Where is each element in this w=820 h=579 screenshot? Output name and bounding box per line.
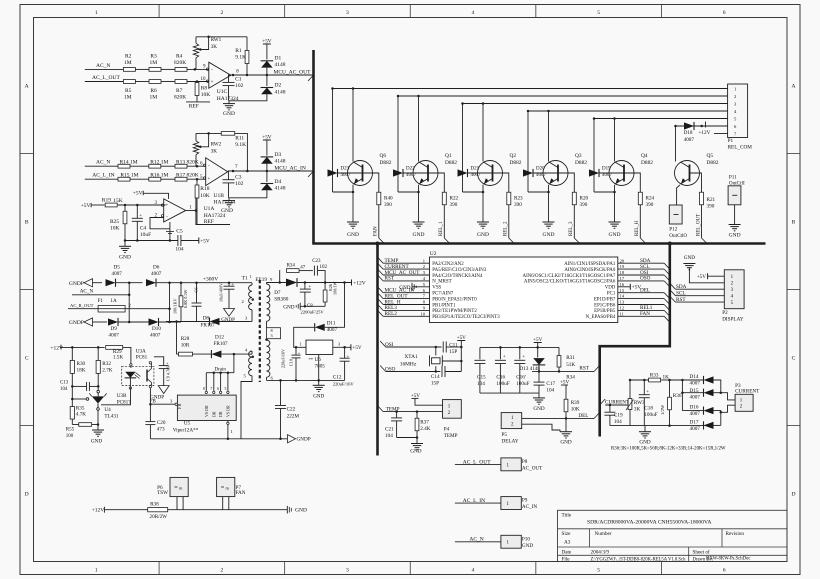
svg-text:File: File — [562, 556, 571, 562]
svg-text:R25: R25 — [110, 219, 119, 225]
svg-text:DEL: DEL — [578, 413, 588, 419]
svg-text:FAN: FAN — [236, 490, 246, 496]
diode D19 4007 — [589, 169, 599, 176]
svg-text:C13: C13 — [60, 380, 69, 385]
svg-text:PA2/CIN2/AN2: PA2/CIN2/AN2 — [432, 262, 464, 267]
svg-text:D18: D18 — [684, 130, 693, 136]
wire R28 to D12 — [193, 353, 212, 355]
net label CURRENT to U2 pin 2 — [378, 263, 384, 269]
svg-text:C22: C22 — [287, 406, 296, 412]
svg-text:A: A — [25, 84, 29, 90]
resistor R23 390 — [507, 192, 511, 205]
svg-text:4.7K: 4.7K — [76, 412, 86, 418]
power +5V to P2 pin 1 — [707, 273, 709, 279]
svg-text:Q4: Q4 — [641, 153, 648, 159]
resistor R8 — [196, 81, 198, 84]
svg-text:P5: P5 — [502, 432, 508, 438]
svg-text:10R: 10R — [181, 342, 190, 348]
svg-text:R38: R38 — [150, 502, 159, 508]
svg-text:D3: D3 — [275, 152, 282, 158]
bus drop x=669.8 with jog to x=599.7 — [600, 245, 670, 437]
svg-text:DISPLAY: DISPLAY — [722, 316, 744, 322]
wire T1 pin6 bottom rail — [267, 379, 345, 381]
diode D1 4148 — [261, 61, 273, 68]
svg-text:1M: 1M — [124, 94, 132, 100]
svg-text:D882: D882 — [380, 160, 392, 166]
resistor R30 18K — [71, 347, 73, 360]
svg-text:DXW-8KW-Ps.SchDoc: DXW-8KW-Ps.SchDoc — [706, 557, 750, 562]
wire secondary pin6 bottom — [266, 377, 268, 380]
svg-text:C3: C3 — [235, 175, 242, 181]
wire U3B emitter to TL431 — [101, 388, 131, 405]
wire R39 to GND — [565, 418, 567, 431]
wire base Q4 — [599, 172, 624, 174]
wire P1 pin7 stub — [714, 133, 728, 135]
svg-text:16: 16 — [620, 282, 625, 287]
svg-text:Q6: Q6 — [380, 153, 387, 159]
resistor R29 1.5K — [106, 346, 123, 350]
svg-text:104: 104 — [175, 246, 184, 252]
capacitor C4 10uF electrolytic — [136, 205, 138, 218]
svg-text:m: m — [226, 485, 230, 490]
svg-text:+: + — [347, 353, 350, 358]
wire AC_N row 2 — [85, 165, 118, 167]
svg-text:100uF: 100uF — [516, 381, 529, 387]
wire base Q3 — [533, 172, 558, 174]
diode D22 4007 — [393, 169, 403, 176]
transistor Q6 D882 — [348, 161, 373, 186]
wire U1A output — [186, 210, 196, 212]
wire emitter junction rail — [398, 191, 419, 193]
svg-text:10K: 10K — [110, 226, 120, 232]
svg-text:SR380: SR380 — [274, 297, 289, 303]
svg-text:8: 8 — [203, 387, 205, 391]
wire base resistor drop — [624, 173, 640, 192]
wire D8 to T1 pin3 — [220, 321, 250, 323]
wire R19 to pin3 node — [118, 204, 166, 206]
wire D1 to output — [266, 67, 268, 86]
resistor R21 390 — [700, 192, 704, 205]
power +5V stub above D13 — [534, 342, 542, 344]
svg-text:C10: C10 — [288, 359, 293, 366]
svg-text:4007: 4007 — [151, 271, 162, 277]
diode D7 SR380 — [286, 279, 297, 287]
svg-text:D: D — [791, 492, 795, 498]
svg-text:Q1: Q1 — [445, 153, 452, 159]
svg-text:R55: R55 — [66, 428, 75, 433]
op-amp U1A — [164, 199, 186, 222]
svg-text:P9: P9 — [522, 498, 528, 504]
svg-text:473: 473 — [157, 426, 165, 432]
svg-text:C6: C6 — [194, 287, 199, 293]
svg-text:R15 1M: R15 1M — [120, 172, 138, 178]
wire R7 to op-amp pin 10 — [187, 81, 209, 83]
svg-text:+: + — [522, 355, 525, 360]
power +12V secondary output — [351, 280, 353, 286]
wire U5 source bottom — [227, 421, 229, 422]
svg-text:D882: D882 — [707, 160, 719, 166]
svg-text:R20: R20 — [580, 196, 589, 202]
connector P10 GND — [501, 535, 521, 548]
diode D14 4007 — [704, 376, 714, 383]
wire D11 cathode to U6 pin 1 — [294, 327, 315, 347]
wire R1 bottom to output — [246, 64, 248, 76]
svg-text:R30: R30 — [77, 361, 86, 367]
capacitor C9 4.7uF — [154, 357, 164, 366]
svg-text:TSW: TSW — [157, 490, 168, 496]
resistor R15 — [118, 177, 130, 181]
svg-text:6.8K 0.5W: 6.8K 0.5W — [183, 289, 188, 308]
svg-text:PC1: PC1 — [607, 292, 616, 297]
wire base resistor drop — [428, 173, 444, 192]
svg-text:PC7/AIN7: PC7/AIN7 — [432, 292, 453, 297]
svg-text:+5V: +5V — [81, 203, 91, 209]
resistor R17 — [175, 177, 187, 181]
svg-text:GNDP: GNDP — [221, 318, 235, 323]
svg-text:PB0/N_EPAS1/PINT0: PB0/N_EPAS1/PINT0 — [432, 297, 477, 302]
wire D5 to D6 — [116, 282, 143, 284]
wire GND to P2 pin 2 — [689, 268, 724, 283]
svg-text:R16 1M: R16 1M — [150, 172, 168, 178]
svg-text:Revision: Revision — [726, 531, 745, 537]
zone row ticks — [20, 153, 34, 155]
svg-text:R13 820K: R13 820K — [176, 159, 199, 165]
svg-text:DEL: DEL — [640, 288, 650, 294]
diode D9 4007 — [108, 318, 118, 325]
wire R39 bottom DEL rail — [565, 412, 567, 419]
svg-text:4148: 4148 — [275, 89, 286, 95]
svg-text:AC_L_OUT: AC_L_OUT — [92, 75, 120, 81]
svg-text:220uF/16V: 220uF/16V — [281, 349, 286, 368]
resistor R1 9.1K — [245, 51, 249, 64]
svg-text:C9 4.7uF: C9 4.7uF — [166, 365, 171, 381]
svg-text:15K: 15K — [113, 198, 123, 204]
wire P1 pin6 rail with D18 — [676, 125, 728, 127]
wire D9 to D10 — [118, 321, 149, 323]
svg-text:+: + — [211, 80, 214, 85]
svg-text:820K: 820K — [174, 60, 186, 66]
svg-text:10uF/400V: 10uF/400V — [219, 283, 224, 302]
svg-text:7805: 7805 — [315, 364, 326, 370]
resistor R25 — [124, 205, 126, 211]
zone column ticks — [158, 5, 160, 18]
wire D15 left — [682, 392, 703, 394]
svg-text:19: 19 — [620, 264, 625, 269]
resistor R37 2.4K — [416, 412, 418, 419]
wire TL431 anode down — [97, 404, 99, 408]
snubber R34 47 — [279, 271, 282, 283]
wire emitter junction rail — [333, 191, 354, 193]
svg-text:R22: R22 — [450, 196, 459, 202]
wire D16 left — [682, 410, 703, 412]
wire P1 pin2 to Q1 — [398, 95, 728, 97]
svg-text:104: 104 — [477, 381, 485, 387]
title block frame — [558, 510, 788, 561]
svg-text:GND: GND — [313, 394, 324, 400]
svg-text:10: 10 — [421, 311, 426, 316]
wire U2 right pin 11 to bus — [618, 315, 664, 317]
resistor R2 — [123, 68, 135, 72]
wire to P8 — [455, 463, 501, 465]
ground GND sideways at C8 — [299, 303, 301, 310]
svg-text:+12V: +12V — [699, 130, 711, 136]
resistor R24 390 — [638, 192, 642, 205]
connector P7 FAN — [217, 477, 235, 496]
wire emitter of Q1 — [418, 185, 420, 192]
svg-text:RW2: RW2 — [211, 141, 222, 147]
wire op-amp U1B output — [228, 170, 314, 172]
svg-text:F1: F1 — [98, 298, 104, 304]
svg-text:DR: DR — [211, 411, 216, 417]
svg-text:4007: 4007 — [109, 332, 120, 338]
svg-text:C15: C15 — [477, 374, 486, 380]
svg-text:Date: Date — [562, 549, 572, 555]
net label TEMP to U2 pin 1 — [378, 257, 384, 263]
svg-text:5: 5 — [597, 10, 600, 16]
svg-text:11: 11 — [620, 311, 624, 316]
svg-text:A: A — [791, 84, 795, 90]
wire D2 bottom to GND rail — [229, 93, 267, 101]
svg-text:AIN0/CIN0/ISPSCK/PA0: AIN0/CIN0/ISPSCK/PA0 — [564, 268, 615, 273]
svg-text:GND: GND — [347, 232, 359, 238]
net label MCU_AC_IN to U2 pin 6 — [378, 287, 384, 293]
diode D10 4007 — [149, 318, 159, 325]
svg-text:102: 102 — [235, 181, 244, 187]
wire GNDP to D9 — [93, 321, 108, 323]
resistor R7 — [175, 80, 187, 84]
svg-text:AIN5/OSC2/CLKO/T16GGI/T16GOSC2: AIN5/OSC2/CLKO/T16GGI/T16GOSC2/PA6 — [524, 280, 616, 285]
transformer core dashed line — [259, 280, 261, 382]
svg-text:18K: 18K — [77, 367, 86, 373]
svg-text:EE19: EE19 — [255, 277, 267, 283]
wire R29 to opto LED — [123, 347, 131, 363]
svg-text:P10: P10 — [522, 536, 530, 542]
wire Q5 collector — [675, 126, 677, 162]
svg-text:C: C — [792, 356, 796, 362]
svg-text:51K: 51K — [566, 362, 575, 368]
wire U2 right pin 14 to bus — [618, 298, 664, 300]
snubber resistor R27 100/1KV — [180, 283, 182, 296]
svg-text:SDR/ACDR8000VA-20000VA CNH550: SDR/ACDR8000VA-20000VA CNH5500VA-18000VA — [587, 520, 711, 526]
wire U2 right pin 17 to bus — [618, 280, 664, 282]
resistor R4 — [175, 68, 187, 72]
svg-text:R1: R1 — [235, 48, 242, 54]
svg-text:EP1D/PB7: EP1D/PB7 — [594, 297, 616, 302]
svg-text:+5V: +5V — [560, 379, 570, 385]
svg-text:D1: D1 — [275, 55, 282, 61]
resistor R31 51K — [558, 347, 560, 356]
secondary winding upper — [267, 284, 270, 321]
capacitor C11 15P — [442, 342, 444, 353]
svg-text:C5: C5 — [176, 228, 183, 234]
svg-text:D4: D4 — [275, 179, 282, 185]
power flag GNDP bottom rail — [288, 435, 296, 443]
svg-text:R39: R39 — [571, 400, 580, 406]
svg-text:D22: D22 — [406, 167, 415, 172]
svg-text:R3: R3 — [150, 53, 157, 59]
svg-text:D882: D882 — [445, 160, 457, 166]
primary winding lower — [249, 351, 252, 376]
wire Q6 collector vertical — [352, 89, 354, 162]
transistor Q4 D882 — [609, 161, 634, 186]
svg-text:R23: R23 — [514, 196, 523, 202]
svg-text:47: 47 — [300, 266, 306, 271]
wire Q4 collector vertical — [614, 119, 616, 162]
svg-text:Title: Title — [562, 513, 572, 519]
svg-text:AC_N: AC_N — [96, 160, 110, 166]
transistor Q5 D882 — [675, 161, 700, 186]
power flag GNDP down arrow — [224, 309, 235, 317]
svg-text:TEMP: TEMP — [444, 433, 458, 439]
svg-text:D20: D20 — [536, 167, 545, 172]
svg-text:C4: C4 — [140, 226, 147, 232]
capacitor C12 220uF/16V — [344, 347, 346, 358]
svg-text:R5: R5 — [125, 88, 132, 94]
wire D15 right — [713, 392, 721, 394]
wire R17 to U1B pin 5 — [187, 178, 206, 180]
svg-text:R36:3K=100R,5K=56R;8K-12K=33R;: R36:3K=100R,5K=56R;8K-12K=33R;14-20K=15R… — [611, 446, 726, 451]
wiper of RW2 — [199, 133, 209, 146]
capacitor C16 100uF — [499, 347, 501, 359]
wire AC_L_IN row — [85, 178, 118, 180]
wire drain to D12 row — [233, 354, 235, 373]
svg-text:MCU_AC_OUT: MCU_AC_OUT — [274, 69, 312, 75]
svg-text:C23: C23 — [312, 259, 321, 264]
svg-text:C21: C21 — [385, 426, 394, 432]
wire D13 to RST rail — [538, 365, 540, 372]
svg-text:U1C: U1C — [217, 89, 228, 95]
svg-text:R8: R8 — [201, 86, 208, 92]
svg-text:+: + — [503, 355, 506, 360]
resistor R5 — [123, 80, 135, 84]
svg-text:+5V: +5V — [262, 38, 272, 44]
resistor R11 9.1K — [221, 132, 235, 136]
connector P8 AC_OUT — [501, 458, 521, 471]
svg-text:PB2/TE1PWM/PINT2: PB2/TE1PWM/PINT2 — [432, 309, 477, 314]
resistor R18 — [196, 179, 198, 185]
ground GND under C3 — [228, 198, 230, 201]
svg-text:T1: T1 — [242, 275, 248, 281]
svg-text:222M: 222M — [287, 414, 300, 420]
wire base resistor drop — [493, 173, 509, 192]
resistor R13 — [175, 164, 187, 168]
wire R37 bottom to GND — [416, 431, 418, 444]
capacitor C17 104 — [534, 381, 545, 383]
bottom rail GNDP — [150, 438, 287, 440]
bus drop x=377.5 — [376, 242, 379, 455]
diode D6 4007 — [146, 279, 156, 286]
svg-text:4007: 4007 — [471, 173, 482, 178]
svg-text:820K: 820K — [174, 94, 186, 100]
wire base Q6 — [338, 172, 363, 174]
connector P4 TEMP — [443, 400, 462, 419]
wire junction to P3 pin1 — [721, 393, 735, 400]
svg-text:2.7K: 2.7K — [102, 367, 112, 373]
ground GND cap bank — [538, 393, 540, 398]
svg-text:104: 104 — [60, 387, 68, 392]
wire emitter of Q4 — [614, 185, 616, 192]
svg-text:B: B — [25, 220, 29, 226]
svg-text:R24: R24 — [646, 196, 655, 202]
wire U2 right pin 13 to bus — [618, 304, 664, 306]
wire R36 bottom — [669, 410, 671, 426]
svg-text:TL431: TL431 — [104, 413, 119, 419]
svg-text:RST: RST — [579, 366, 589, 372]
svg-text:FR107: FR107 — [201, 322, 216, 328]
svg-text:4007: 4007 — [690, 411, 701, 417]
wire CURRENT row — [605, 404, 630, 406]
svg-text:+12V: +12V — [92, 508, 105, 514]
svg-text:4007: 4007 — [602, 173, 613, 178]
diode D2 4148 — [261, 88, 273, 95]
svg-text:GNDP: GNDP — [69, 281, 84, 287]
ground GND under Q6 — [347, 221, 359, 223]
capacitor C22 222M — [280, 380, 282, 405]
IC U5 Viper12A — [177, 395, 236, 420]
wire D11 anode to +12V rail — [325, 283, 345, 328]
svg-text:PB3/EP1A/TE2CO/TE2CI/PINT3: PB3/EP1A/TE2CO/TE2CI/PINT3 — [432, 315, 500, 320]
wire RST to bus entry — [562, 370, 594, 372]
svg-text:GND: GND — [684, 255, 695, 261]
power +5V crystal — [457, 340, 465, 342]
svg-text:Q5: Q5 — [707, 153, 714, 159]
diode D13 4148 — [533, 358, 545, 365]
svg-text:REL_COM: REL_COM — [728, 145, 753, 151]
wire Q3 collector vertical — [548, 111, 550, 162]
svg-text:EP1C/PB6: EP1C/PB6 — [594, 303, 616, 308]
bottom rail CURRENT block — [610, 425, 705, 427]
wire secondary pin9 top — [266, 283, 268, 285]
svg-text:REL_2: REL_2 — [504, 221, 509, 236]
svg-text:4007: 4007 — [684, 137, 695, 143]
wire R5-R6 — [135, 81, 149, 83]
svg-text:GND: GND — [283, 305, 294, 311]
wire +5V to R19 — [91, 204, 105, 206]
capacitor C21 104 — [396, 412, 398, 418]
wire R11 to output — [235, 133, 248, 171]
svg-text:C1: C1 — [235, 76, 242, 82]
bus horizontal y=243.5 — [312, 242, 765, 245]
capacitor C19 104 — [609, 405, 611, 412]
svg-text:4007: 4007 — [327, 327, 338, 333]
svg-text:Drain: Drain — [215, 368, 227, 373]
wire RW2 top rail — [196, 132, 221, 134]
opto coupling arrows — [135, 375, 140, 379]
svg-text:+5V: +5V — [262, 134, 272, 140]
svg-text:AC_OUT: AC_OUT — [522, 466, 543, 472]
wire D16 right vertical — [713, 411, 721, 426]
svg-text:104: 104 — [614, 419, 622, 425]
svg-text:390: 390 — [707, 204, 715, 210]
svg-text:PC81: PC81 — [136, 354, 148, 360]
connector P12 — [669, 205, 682, 224]
capacitor C8 2200uF/25V — [304, 283, 306, 290]
wire REL_H to bus entry — [639, 205, 641, 238]
capacitor C15 104 — [479, 347, 481, 359]
ground GND under Q4 — [609, 221, 621, 223]
wiper of RW1 — [199, 37, 209, 50]
wire P1 pin1 to Q6 — [333, 88, 728, 90]
svg-text:R6: R6 — [150, 88, 157, 94]
svg-text:A3: A3 — [564, 540, 571, 546]
svg-text:RST: RST — [385, 276, 395, 282]
svg-text:D9: D9 — [111, 326, 118, 332]
svg-text:P12: P12 — [669, 227, 677, 233]
svg-text:D7: D7 — [274, 290, 281, 296]
wire RW1 top rail to R1 — [196, 36, 247, 38]
svg-text:REL_1: REL_1 — [439, 221, 444, 236]
wire D20 flyback vertical — [527, 111, 529, 192]
